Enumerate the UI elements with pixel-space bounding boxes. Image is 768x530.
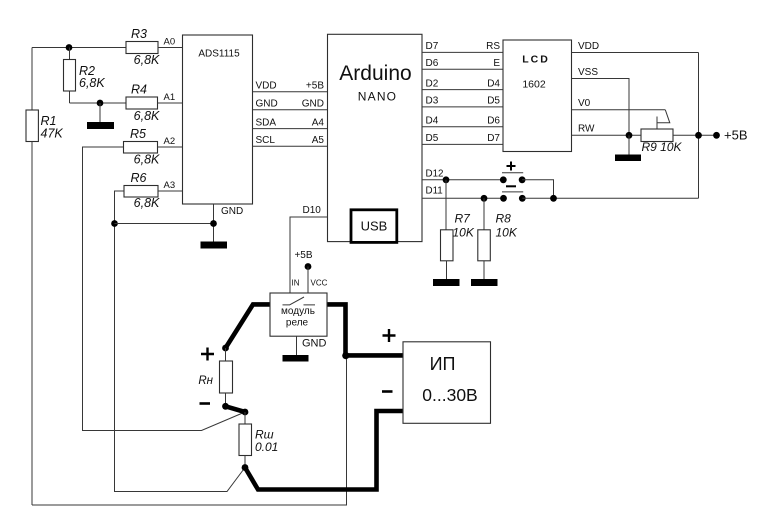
LCD 1602 box	[503, 40, 572, 152]
wire D11 node to R8	[483, 198, 485, 230]
svg-text:R4: R4	[131, 83, 147, 97]
svg-text:A5: A5	[312, 135, 325, 146]
wire R5 left sense run to Rn- node	[83, 147, 246, 431]
junction node R6 rail / ground link	[111, 220, 118, 227]
wire I2C GND-GND	[253, 109, 328, 111]
svg-text:VCC: VCC	[311, 279, 328, 288]
junction node VSS/RW/gnd	[626, 132, 633, 139]
svg-text:A0: A0	[164, 37, 176, 48]
svg-text:1602: 1602	[522, 79, 546, 91]
junction node ADS GND	[210, 220, 217, 227]
ground symbol (LCD VSS)	[615, 135, 641, 161]
svg-text:R9 10K: R9 10K	[642, 140, 683, 154]
wire Arduino D7 to LCD RS	[422, 51, 503, 53]
junction node R3/R2	[66, 44, 73, 51]
svg-text:10K: 10K	[453, 225, 475, 239]
svg-text:R8: R8	[496, 212, 512, 226]
svg-text:10K: 10K	[496, 225, 518, 239]
wire left rail R1 bottom down	[31, 142, 33, 506]
wire R9 right to +5B node	[673, 134, 717, 136]
svg-text:E: E	[493, 58, 500, 69]
svg-text:6,8K: 6,8K	[79, 76, 105, 90]
junction node R2/R4/ground	[97, 100, 104, 107]
wire D12 from Arduino	[422, 179, 503, 181]
wire Rn bottom stem	[225, 393, 227, 406]
wire Arduino D3 to LCD D5	[422, 106, 503, 108]
label - (Rn)	[200, 402, 211, 405]
resistor R3	[126, 42, 158, 54]
ground symbol (ADS GND)	[201, 242, 228, 249]
svg-text:R7: R7	[455, 212, 472, 226]
svg-text:модуль: модуль	[281, 306, 315, 317]
svg-text:R5: R5	[130, 127, 146, 141]
svg-text:D2: D2	[426, 78, 439, 89]
svg-text:VDD: VDD	[578, 41, 599, 52]
node +5B (relay VCC)	[305, 263, 312, 270]
wire LCD V0 to pot wiper	[572, 109, 666, 111]
ADS pin GND stem	[213, 204, 215, 242]
svg-text:SDA: SDA	[256, 117, 277, 128]
ground symbol (relay)	[283, 355, 309, 362]
svg-text:USB: USB	[361, 219, 388, 234]
pot wiper arm	[657, 110, 670, 129]
junction node buttons right	[550, 195, 557, 202]
wire R5 to ADS pin A2	[158, 146, 183, 148]
wire I2C VDD to +5B	[253, 91, 328, 93]
svg-text:A2: A2	[164, 136, 176, 147]
wire +5 rail vertical	[698, 53, 700, 199]
svg-text:D6: D6	[487, 116, 500, 127]
wire D12 node to R7	[445, 180, 447, 230]
resistor Rn	[220, 361, 233, 393]
ground symbol (R7)	[433, 261, 460, 286]
junction node Rsh-	[242, 464, 249, 471]
IC ADS1115	[183, 35, 253, 204]
svg-text:+5B: +5B	[306, 81, 324, 92]
svg-text:GND: GND	[302, 338, 327, 350]
svg-text:A1: A1	[164, 92, 176, 103]
svg-text:D11: D11	[426, 186, 443, 197]
svg-text:D6: D6	[426, 58, 439, 69]
svg-text:ИП: ИП	[430, 354, 456, 374]
wire S+ right to D11 net	[522, 180, 553, 199]
power supply IP box	[403, 342, 491, 424]
junction node D12/R7	[443, 176, 450, 183]
svg-text:47K: 47K	[41, 127, 64, 141]
relay module box	[270, 293, 327, 336]
svg-text:ADS1115: ADS1115	[198, 49, 240, 60]
pushbutton S+	[500, 162, 526, 184]
junction node rail/R9	[695, 132, 702, 139]
svg-text:A3: A3	[164, 180, 176, 191]
wire I2C SCL-A5	[253, 145, 328, 147]
label + (PSU)	[383, 329, 396, 342]
svg-text:RW: RW	[578, 124, 595, 135]
junction node Rsh+	[242, 409, 249, 416]
svg-text:D7: D7	[426, 41, 439, 52]
junction node PSU+/sense	[342, 352, 349, 359]
resistor R6	[124, 186, 158, 198]
svg-text:A4: A4	[312, 117, 325, 128]
wire R3 to ADS pin A0	[158, 47, 183, 49]
junction node Rn+	[222, 345, 229, 352]
wire net A0: left rail to R3 left	[32, 47, 126, 49]
potentiometer R9	[641, 129, 673, 142]
wire Arduino D2 to LCD D4	[422, 89, 503, 91]
wire I2C SDA-A4	[253, 128, 328, 130]
resistor R7	[441, 230, 454, 261]
wire D11 from Arduino	[422, 197, 504, 199]
wire Arduino D6 to LCD E	[422, 68, 503, 70]
junction node Rn-	[222, 403, 229, 410]
node +5B terminal	[713, 132, 720, 139]
wire D10 to relay IN	[290, 217, 328, 293]
svg-text:V0: V0	[578, 98, 591, 109]
wire Rn top stem	[225, 348, 227, 361]
wire R4 to ADS pin A1	[158, 102, 183, 104]
wire LCD RW to R9	[572, 134, 642, 136]
wire R6 to ADS pin A3	[158, 190, 183, 192]
svg-text:Arduino: Arduino	[339, 62, 411, 85]
IC Arduino NANO	[328, 34, 423, 241]
svg-text:D7: D7	[487, 133, 500, 144]
svg-text:6,8K: 6,8K	[134, 196, 160, 210]
svg-text:+5B: +5B	[294, 250, 312, 261]
relay switch contact symbol	[283, 297, 316, 305]
svg-text:D10: D10	[303, 205, 322, 216]
pushbutton S-	[500, 186, 526, 201]
pin GND stem (relay)	[296, 336, 298, 355]
svg-text:GND: GND	[302, 99, 324, 110]
wire R2 bottom to R4 left	[70, 102, 127, 104]
svg-text:0...30В: 0...30В	[422, 385, 477, 405]
svg-text:+5B: +5B	[724, 128, 748, 143]
resistor R8	[478, 230, 491, 261]
label - (PSU)	[382, 390, 393, 393]
wire LCD VSS down to RW node	[572, 79, 630, 136]
thick link Rn- to Rsh+	[226, 406, 246, 412]
wire bottom sense rail to PSU+	[32, 356, 347, 505]
wire Rsh bottom stem	[244, 456, 246, 468]
wire S- right to +5 rail	[522, 197, 698, 199]
svg-text:реле: реле	[286, 317, 309, 328]
svg-text:GND: GND	[256, 99, 278, 110]
resistor R4	[126, 97, 158, 109]
svg-text:LCD: LCD	[522, 54, 550, 66]
label + (Rn)	[201, 348, 214, 361]
thick wire Rsh- to PSU minus	[245, 411, 403, 490]
svg-text:VSS: VSS	[578, 67, 598, 78]
resistor R2	[64, 48, 76, 104]
wire Arduino D5 to LCD D7	[422, 143, 503, 145]
svg-text:D4: D4	[487, 78, 500, 89]
resistor R5	[124, 142, 158, 154]
svg-text:0.01: 0.01	[255, 440, 278, 454]
svg-text:6,8K: 6,8K	[134, 53, 160, 67]
USB connector	[351, 210, 397, 243]
thick wire relay left to Rn+	[226, 304, 270, 348]
svg-text:IN: IN	[292, 279, 300, 288]
svg-text:D5: D5	[487, 96, 500, 107]
junction node D11/R8	[481, 195, 488, 202]
svg-text:RS: RS	[486, 41, 500, 52]
wire ground link to ADS GND	[115, 223, 214, 225]
svg-text:R6: R6	[131, 171, 147, 185]
ground symbol (R2/R4 node)	[87, 103, 114, 129]
svg-text:D5: D5	[426, 133, 439, 144]
wire VCC stem	[307, 267, 309, 294]
wire left rail vertical (A0 node down to R1 top)	[31, 48, 33, 111]
svg-text:6,8K: 6,8K	[134, 152, 160, 166]
ground symbol (R8)	[471, 261, 498, 286]
svg-text:D12: D12	[426, 168, 444, 179]
svg-text:D4: D4	[426, 116, 439, 127]
svg-text:D3: D3	[426, 96, 439, 107]
thick wire relay right to PSU plus	[328, 304, 404, 355]
resistor Rsh	[239, 424, 252, 456]
svg-text:R3: R3	[131, 27, 147, 41]
svg-text:GND: GND	[221, 206, 243, 217]
wire Arduino D4 to LCD D6	[422, 126, 503, 128]
wire Rsh top stem	[244, 412, 246, 424]
svg-text:NANO: NANO	[358, 90, 397, 104]
svg-text:SCL: SCL	[256, 135, 276, 146]
wire LCD VDD to +5 rail	[572, 52, 699, 54]
svg-text:VDD: VDD	[256, 81, 277, 92]
svg-text:6,8K: 6,8K	[134, 109, 160, 123]
wire R6 left sense run to Rsh- node	[115, 191, 246, 492]
svg-text:Rн: Rн	[198, 375, 213, 387]
resistor R1	[26, 110, 38, 142]
